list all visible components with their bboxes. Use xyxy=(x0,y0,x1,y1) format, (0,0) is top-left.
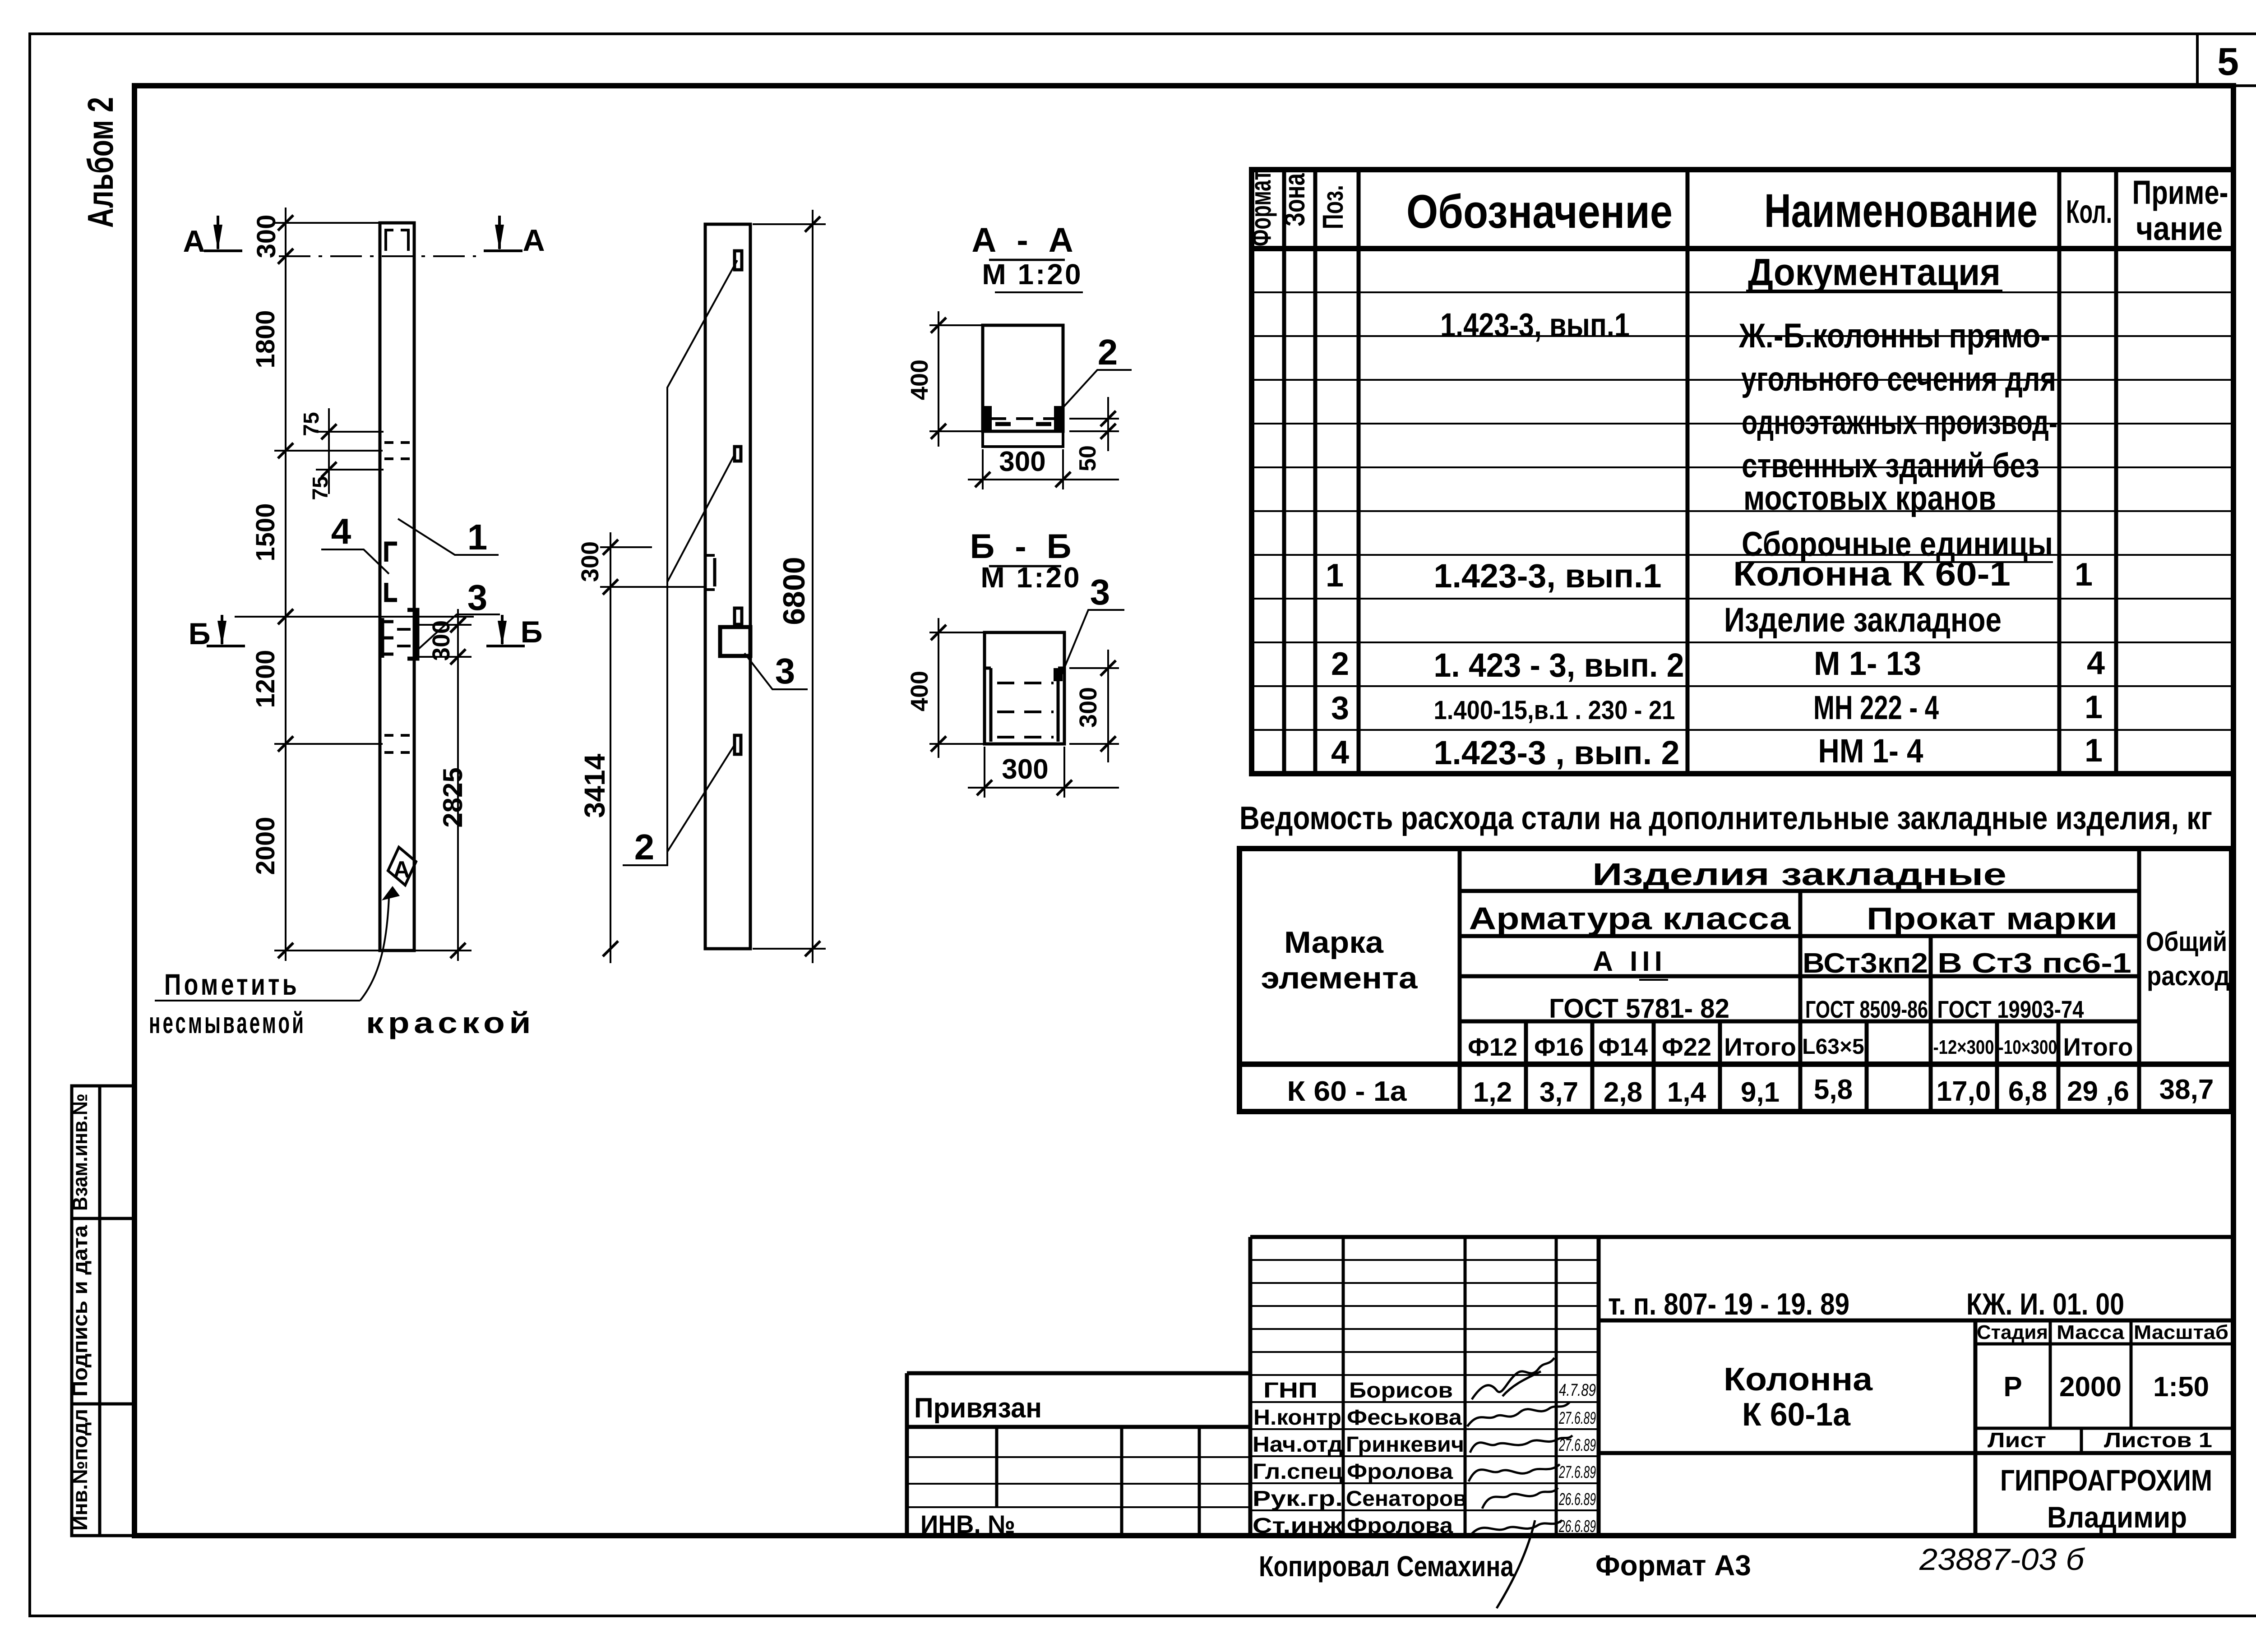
Лист row xyxy=(2080,1428,2083,1453)
svg-text:75: 75 xyxy=(300,412,324,436)
svg-text:Альбом 2: Альбом 2 xyxy=(80,97,120,228)
svg-text:4.7.89: 4.7.89 xyxy=(1559,1381,1596,1400)
svg-text:А - А: А - А xyxy=(971,221,1078,259)
svg-text:Инв.№подл: Инв.№подл xyxy=(68,1409,92,1531)
svg-text:Наименование: Наименование xyxy=(1764,185,2038,237)
svg-text:Ж.-Б.колонны прямо-: Ж.-Б.колонны прямо- xyxy=(1738,317,2050,355)
svg-text:1: 1 xyxy=(2085,689,2103,725)
svg-text:38,7: 38,7 xyxy=(2159,1074,2214,1105)
svg-text:4: 4 xyxy=(331,511,351,551)
svg-text:Ф22: Ф22 xyxy=(1662,1033,1711,1061)
svg-text:Стадия: Стадия xyxy=(1977,1321,2048,1343)
svg-text:Ст.инж: Ст.инж xyxy=(1253,1514,1343,1538)
svg-text:Привязан: Привязан xyxy=(914,1393,1042,1424)
vedomost sub verticals xyxy=(1526,1021,2058,1112)
svg-text:4: 4 xyxy=(1331,734,1349,771)
svg-text:НМ 1- 4: НМ 1- 4 xyxy=(1818,732,1923,770)
svg-text:Гринкевич: Гринкевич xyxy=(1346,1433,1464,1457)
svg-text:Гл.спец: Гл.спец xyxy=(1253,1460,1343,1484)
embedded plate at item3 xyxy=(735,608,742,624)
svg-text:Б: Б xyxy=(189,617,211,651)
paint mark diamond with A xyxy=(382,847,416,900)
column K60-1a elevation view 1 outline xyxy=(380,223,414,951)
svg-text:1: 1 xyxy=(467,517,488,557)
svg-text:ГНП: ГНП xyxy=(1263,1379,1318,1403)
svg-text:К 60-1а: К 60-1а xyxy=(1742,1397,1851,1433)
svg-text:2: 2 xyxy=(634,827,655,867)
svg-text:Итого: Итого xyxy=(2063,1033,2133,1061)
svg-text:краской: краской xyxy=(366,1006,535,1039)
svg-text:Лист: Лист xyxy=(1988,1428,2046,1452)
svg-text:1,4: 1,4 xyxy=(1667,1077,1706,1108)
svg-text:Документация: Документация xyxy=(1748,251,2001,293)
channel walls xyxy=(985,668,1064,742)
section marker B right: arrow xyxy=(486,615,525,646)
svg-text:Нач.отд: Нач.отд xyxy=(1253,1433,1343,1457)
svg-text:300: 300 xyxy=(1075,687,1102,728)
svg-text:А: А xyxy=(393,857,410,883)
svg-text:1,2: 1,2 xyxy=(1473,1077,1512,1108)
embedded plate lower xyxy=(735,735,741,754)
svg-text:Колонна: Колонна xyxy=(1724,1361,1873,1398)
svg-text:1800: 1800 xyxy=(251,310,280,368)
svg-text:400: 400 xyxy=(906,360,933,400)
svg-text:Б - Б: Б - Б xyxy=(970,527,1077,566)
svg-text:1. 423 - 3, вып. 2: 1. 423 - 3, вып. 2 xyxy=(1434,646,1684,684)
svg-text:Взам.инв.№: Взам.инв.№ xyxy=(68,1094,92,1211)
svg-text:несмываемой: несмываемой xyxy=(149,1006,306,1039)
svg-text:23887-03 б: 23887-03 б xyxy=(1919,1542,2085,1577)
svg-text:3: 3 xyxy=(1331,690,1349,726)
svg-text:2000: 2000 xyxy=(251,817,280,875)
section marker A left: arrow xyxy=(204,216,242,251)
svg-text:3414: 3414 xyxy=(578,753,611,818)
section line A-A (dash-dot) xyxy=(279,255,476,257)
embedded marks at 75 level xyxy=(384,443,410,459)
svg-text:1200: 1200 xyxy=(251,650,280,708)
left grid xyxy=(907,1457,1250,1507)
svg-text:Б: Б xyxy=(521,615,543,649)
embedded plate top xyxy=(735,251,742,270)
svg-text:Подпись и дата: Подпись и дата xyxy=(68,1225,92,1397)
section A-A square xyxy=(983,325,1063,431)
400 dimension left xyxy=(929,311,999,447)
channel dashed lines xyxy=(997,683,1054,737)
svg-text:3: 3 xyxy=(1090,572,1110,612)
dashed bracket at 300 level xyxy=(705,554,715,557)
spec row lines xyxy=(1252,292,2232,730)
svg-text:1: 1 xyxy=(2075,557,2093,593)
svg-text:Ф16: Ф16 xyxy=(1534,1033,1584,1061)
stamp inner verticals xyxy=(1343,1237,1556,1536)
300 dimension bottom xyxy=(968,747,1119,798)
svg-text:элемента: элемента xyxy=(1261,961,1418,995)
svg-text:26.6.89: 26.6.89 xyxy=(1558,1490,1596,1509)
300 dimension bottom xyxy=(968,449,1119,489)
svg-text:М 1:20: М 1:20 xyxy=(980,561,1081,594)
svg-text:Листов 1: Листов 1 xyxy=(2104,1428,2212,1452)
svg-text:одноэтажных производ-: одноэтажных производ- xyxy=(1742,403,2057,442)
embedded plate mid xyxy=(735,447,741,461)
left sidebar boxes xyxy=(68,1086,134,1536)
svg-text:-10×300: -10×300 xyxy=(1998,1036,2057,1058)
svg-text:Марка: Марка xyxy=(1284,925,1384,960)
svg-text:4: 4 xyxy=(2087,645,2105,681)
svg-text:МН 222 - 4: МН 222 - 4 xyxy=(1813,689,1939,726)
svg-text:Ведомость расхода стали на доп: Ведомость расхода стали на дополнительны… xyxy=(1239,800,2212,836)
item 3 embedded bracket with dashes xyxy=(407,610,417,659)
svg-text:300: 300 xyxy=(577,541,604,582)
svg-text:5,8: 5,8 xyxy=(1814,1074,1853,1105)
stamp labeled row lines xyxy=(1250,1375,1599,1510)
leader curve from note to paint mark xyxy=(360,898,389,1001)
svg-text:Арматура класса: Арматура класса xyxy=(1469,901,1791,936)
svg-text:К 60 - 1а: К 60 - 1а xyxy=(1287,1076,1407,1107)
vedomost main verticals xyxy=(1460,849,2139,1112)
svg-text:М 1:20: М 1:20 xyxy=(982,258,1082,291)
300/3414 dimension line left xyxy=(600,532,704,963)
svg-text:17,0: 17,0 xyxy=(1937,1076,1991,1107)
svg-text:1: 1 xyxy=(2085,733,2103,769)
svg-text:А III: А III xyxy=(1593,946,1667,977)
vedomost horizontals xyxy=(1460,891,2139,1021)
svg-text:Общий: Общий xyxy=(2146,927,2227,957)
svg-text:Поз.: Поз. xyxy=(1317,185,1349,229)
svg-text:2,8: 2,8 xyxy=(1604,1077,1642,1108)
chain ticks xyxy=(278,215,293,958)
svg-text:Р: Р xyxy=(2003,1371,2022,1403)
svg-text:Рук.гр.: Рук.гр. xyxy=(1253,1487,1343,1511)
item 3 bracket box xyxy=(720,627,750,656)
embedded plate marks at top xyxy=(386,230,408,251)
svg-text:Фролова: Фролова xyxy=(1347,1460,1453,1484)
svg-text:-12×300: -12×300 xyxy=(1933,1036,1994,1058)
svg-text:Формат: Формат xyxy=(1244,171,1277,246)
svg-text:М 1- 13: М 1- 13 xyxy=(1814,645,1921,682)
svg-text:Борисов: Борисов xyxy=(1349,1379,1453,1403)
svg-text:Феськова: Феськова xyxy=(1347,1406,1462,1430)
svg-text:6,8: 6,8 xyxy=(2008,1076,2047,1107)
svg-text:угольного сечения для: угольного сечения для xyxy=(1741,360,2056,398)
svg-text:Колонна К 60-1: Колонна К 60-1 xyxy=(1733,555,2011,593)
svg-text:Масштаб: Масштаб xyxy=(2134,1321,2228,1343)
svg-text:Изделие закладное: Изделие закладное xyxy=(1724,601,2002,639)
stamp empty row lines xyxy=(1250,1260,1599,1352)
sheet number box divider xyxy=(2197,35,2256,86)
left box Привязан xyxy=(907,1373,1250,1536)
svg-text:1:50: 1:50 xyxy=(2153,1371,2209,1403)
svg-text:26.6.89: 26.6.89 xyxy=(1558,1517,1596,1536)
svg-text:ВСт3кп2: ВСт3кп2 xyxy=(1803,948,1928,979)
svg-text:300: 300 xyxy=(1002,754,1048,785)
svg-text:Кол.: Кол. xyxy=(2066,194,2112,230)
svg-text:Сенаторов: Сенаторов xyxy=(1346,1487,1467,1511)
svg-text:27.6.89: 27.6.89 xyxy=(1558,1463,1596,1482)
svg-text:3: 3 xyxy=(775,651,795,691)
svg-text:Изделия закладные: Изделия закладные xyxy=(1592,857,2006,892)
svg-text:2: 2 xyxy=(1331,646,1349,682)
svg-text:Н.контр: Н.контр xyxy=(1253,1406,1341,1430)
column K60-1a elevation view 2 outline xyxy=(705,224,750,949)
svg-text:ГОСТ 8509-86: ГОСТ 8509-86 xyxy=(1805,996,1928,1023)
spec column lines xyxy=(1284,170,2116,774)
embedded plate dashed (item 2) xyxy=(989,417,1057,420)
svg-text:27.6.89: 27.6.89 xyxy=(1558,1409,1596,1428)
svg-text:ГОСТ 19903-74: ГОСТ 19903-74 xyxy=(1937,996,2084,1023)
svg-text:Обозначение: Обозначение xyxy=(1406,185,1673,238)
specification table frame xyxy=(1252,170,2233,774)
6800 dimension line right xyxy=(753,210,826,963)
vedomost table frame xyxy=(1239,849,2232,1112)
section B-B square xyxy=(985,632,1064,744)
svg-text:6800: 6800 xyxy=(777,557,811,625)
title block stamp outline xyxy=(1250,1237,2232,1536)
svg-text:т. п. 807- 19 - 19. 89: т. п. 807- 19 - 19. 89 xyxy=(1608,1287,1849,1321)
right 300/2825 dimension line xyxy=(416,609,472,961)
spec header bottom line xyxy=(1252,246,2233,251)
svg-text:Ф12: Ф12 xyxy=(1468,1033,1517,1061)
svg-text:2000: 2000 xyxy=(2059,1371,2122,1403)
svg-text:ГИПРОАГРОХИМ: ГИПРОАГРОХИМ xyxy=(2000,1463,2212,1497)
svg-text:3: 3 xyxy=(467,577,488,618)
svg-text:КЖ. И. 01. 00: КЖ. И. 01. 00 xyxy=(1966,1287,2124,1321)
svg-text:расход: расход xyxy=(2147,961,2230,991)
section marker A right: arrow xyxy=(484,216,522,251)
svg-text:ГОСТ 5781- 82: ГОСТ 5781- 82 xyxy=(1549,993,1729,1024)
400 dimension left xyxy=(929,618,999,758)
svg-text:1.423-3, вып.1: 1.423-3, вып.1 xyxy=(1440,306,1630,344)
svg-text:мостовых кранов: мостовых кранов xyxy=(1743,479,1996,517)
svg-text:2: 2 xyxy=(1098,332,1118,372)
svg-text:Приме-: Приме- xyxy=(2132,174,2228,211)
svg-text:1.400-15,в.1 . 230 - 21: 1.400-15,в.1 . 230 - 21 xyxy=(1434,696,1675,725)
svg-text:В Ст3 пс6-1: В Ст3 пс6-1 xyxy=(1937,948,2131,979)
svg-text:Копировал Семахина: Копировал Семахина xyxy=(1259,1550,1514,1583)
svg-text:Пометить: Пометить xyxy=(164,968,300,1001)
svg-text:300: 300 xyxy=(252,215,281,258)
svg-text:А: А xyxy=(522,223,545,258)
main dimension chain line xyxy=(285,208,287,961)
svg-text:300: 300 xyxy=(428,620,455,661)
svg-text:ИНВ. №: ИНВ. № xyxy=(920,1510,1015,1538)
svg-text:9,1: 9,1 xyxy=(1741,1077,1780,1108)
small 75/75 dimension lines xyxy=(316,408,384,494)
svg-text:Владимир: Владимир xyxy=(2047,1500,2187,1534)
svg-text:400: 400 xyxy=(906,671,933,711)
svg-text:1: 1 xyxy=(1326,558,1344,594)
extension lines for dimension chain xyxy=(235,223,474,951)
svg-text:А: А xyxy=(183,224,205,258)
50 dimension right xyxy=(1069,397,1119,451)
item 4 embedded bracket xyxy=(386,544,397,600)
svg-text:1500: 1500 xyxy=(251,503,280,561)
designation band xyxy=(1599,1319,2232,1323)
svg-text:1.423-3, вып.1: 1.423-3, вып.1 xyxy=(1434,557,1662,595)
svg-text:Прокат марки: Прокат марки xyxy=(1867,901,2117,936)
svg-text:Итого: Итого xyxy=(1724,1033,1796,1061)
title area divider xyxy=(1599,1320,2232,1536)
svg-text:Зона: Зона xyxy=(1278,173,1311,226)
svg-text:Масса: Масса xyxy=(2057,1321,2125,1343)
300 dimension right xyxy=(1069,650,1119,762)
svg-text:1.423-3 , вып. 2: 1.423-3 , вып. 2 xyxy=(1434,734,1680,771)
svg-text:5: 5 xyxy=(2217,40,2239,83)
svg-text:Ф14: Ф14 xyxy=(1598,1033,1648,1061)
svg-text:Формат А3: Формат А3 xyxy=(1595,1549,1751,1582)
lower lip of section A-A xyxy=(983,431,1063,447)
svg-text:50: 50 xyxy=(1075,445,1101,471)
svg-text:чание: чание xyxy=(2136,210,2223,247)
svg-text:75: 75 xyxy=(309,476,333,500)
svg-text:2825: 2825 xyxy=(438,767,468,827)
svg-text:300: 300 xyxy=(999,446,1045,477)
embedded marks at 1649 level xyxy=(384,735,410,752)
svg-text:27.6.89: 27.6.89 xyxy=(1558,1436,1596,1455)
svg-text:29 ,6: 29 ,6 xyxy=(2067,1076,2129,1107)
svg-text:3,7: 3,7 xyxy=(1539,1077,1578,1108)
section marker B left: arrow xyxy=(207,615,245,646)
svg-text:L63×5: L63×5 xyxy=(1802,1035,1864,1059)
svg-text:Фролова: Фролова xyxy=(1347,1514,1453,1538)
stadия box xyxy=(1975,1320,2232,1428)
